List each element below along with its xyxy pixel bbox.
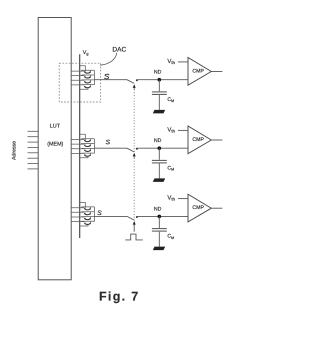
svg-text:(MEM): (MEM): [47, 142, 63, 148]
svg-text:LUT: LUT: [50, 123, 61, 129]
svg-text:Vg: Vg: [83, 50, 89, 56]
svg-text:DAC: DAC: [112, 46, 126, 53]
svg-text:Fig. 7: Fig. 7: [99, 289, 139, 303]
svg-text:Adresse: Adresse: [12, 141, 18, 160]
